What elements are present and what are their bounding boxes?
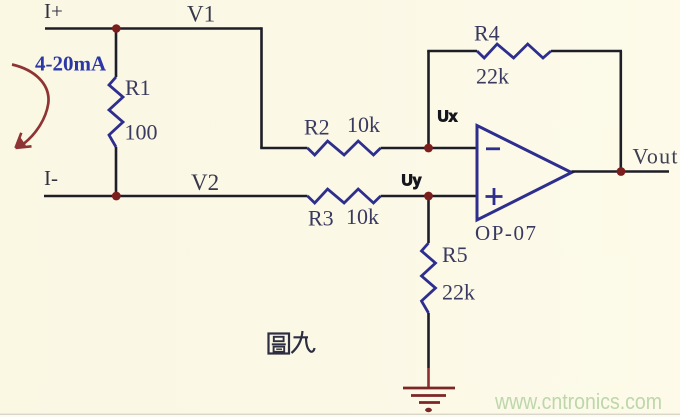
bottom border line [0, 414, 680, 415]
svg-text:OP-07: OP-07 [475, 221, 536, 245]
svg-text:V1: V1 [187, 2, 215, 27]
svg-text:Uy: Uy [402, 173, 422, 190]
resistor R3 zigzag [308, 189, 381, 203]
svg-text:22k: 22k [442, 280, 475, 305]
node Ux junction dot [424, 144, 433, 153]
svg-text:R3: R3 [308, 206, 334, 231]
resistor R2 zigzag [308, 141, 381, 155]
resistor R4 zigzag [477, 44, 551, 58]
wire I- / V2 left segment [44, 195, 308, 198]
svg-text:10k: 10k [346, 204, 379, 229]
ground [403, 387, 455, 390]
wire I+ top horizontal [45, 27, 262, 30]
node Vout junction dot [617, 167, 626, 176]
wire R4 top left lead [427, 50, 477, 53]
arrow current direction [12, 65, 49, 144]
node Uy junction dot [424, 192, 433, 201]
node I+ junction dot [112, 24, 121, 33]
op-amp plus symbol [486, 195, 503, 198]
svg-text:10k: 10k [347, 112, 380, 137]
svg-text:www.cntronics.com: www.cntronics.com [494, 389, 662, 414]
wire R2 right lead to op-amp minus input [381, 147, 477, 150]
wire V1 vertical drop [260, 27, 263, 148]
node I- junction dot [112, 192, 121, 201]
op-amp U1 triangle [477, 126, 572, 221]
svg-text:V2: V2 [191, 170, 219, 195]
wire R5 bottom lead [427, 313, 430, 368]
wire R4 top right lead [551, 50, 622, 53]
wire feedback left vertical [427, 51, 430, 148]
svg-text:Ux: Ux [438, 109, 458, 126]
resistor R1 zigzag [109, 77, 123, 147]
wire R1 bottom lead [115, 147, 118, 197]
svg-text:Vout: Vout [633, 144, 678, 169]
svg-text:I+: I+ [44, 0, 63, 23]
resistor R5 zigzag [422, 243, 436, 313]
wire ground stem (dark red) [427, 368, 430, 388]
wire R5 top lead [427, 196, 430, 243]
svg-text:4-20mA: 4-20mA [35, 52, 107, 76]
svg-text:R4: R4 [474, 21, 500, 46]
svg-text:100: 100 [125, 120, 158, 145]
wire feedback right vertical [619, 51, 622, 172]
svg-text:22k: 22k [476, 64, 509, 89]
wire R1 top lead [115, 27, 118, 77]
label figure nine (CJK drawn) [269, 331, 315, 354]
wire output [572, 170, 670, 173]
wire R2 left lead [260, 147, 307, 150]
svg-text:R5: R5 [442, 242, 468, 267]
wire R3 right lead to op-amp plus input [381, 195, 477, 198]
svg-text:R2: R2 [304, 115, 330, 140]
svg-text:R1: R1 [125, 75, 151, 100]
op-amp minus symbol [486, 147, 500, 150]
svg-text:I-: I- [44, 166, 58, 190]
